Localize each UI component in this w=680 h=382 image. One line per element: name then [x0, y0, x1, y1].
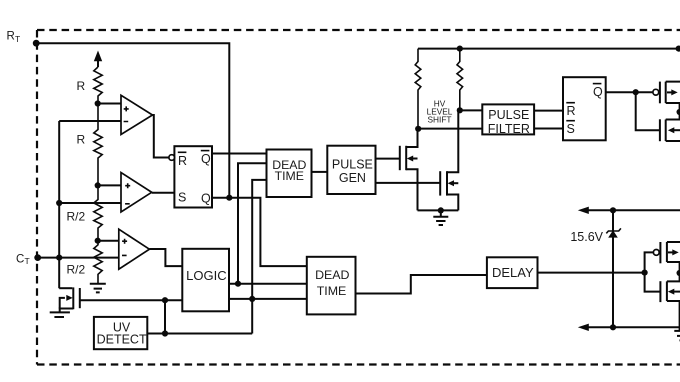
- svg-text:T: T: [25, 256, 30, 266]
- svg-text:T: T: [15, 34, 20, 44]
- node divider tap 3: [95, 238, 101, 244]
- arrow to VCC above resistor chain: [97, 60, 99, 67]
- zener diode D1: [608, 230, 618, 237]
- wire clamp rail (bottom): [588, 326, 680, 328]
- svg-text:R: R: [567, 104, 576, 118]
- block LOGIC: [182, 249, 229, 311]
- wire gate to UV line: [164, 300, 166, 333]
- wire HO n-driver gate: [636, 92, 659, 130]
- transistor Q7 (LO p-driver): [659, 242, 661, 263]
- node divider tap 1: [95, 100, 101, 106]
- node zener top: [610, 207, 616, 213]
- wire Q3 drain to PF S: [418, 128, 482, 130]
- node divider tap 2: [95, 182, 101, 188]
- ground under level shift: [433, 210, 448, 225]
- pin RT dot: [33, 40, 40, 47]
- wire Q4 drain to PF R: [460, 109, 483, 111]
- svg-text:DELAY: DELAY: [492, 265, 534, 280]
- wire VCC rail (right section): [418, 48, 679, 50]
- svg-text:LOGIC: LOGIC: [186, 268, 226, 283]
- svg-text:S: S: [178, 191, 186, 205]
- wire LOGIC out1 to DT2: [229, 283, 307, 285]
- wire U1 Qbar to DT1: [212, 153, 267, 155]
- svg-text:FILTER: FILTER: [488, 122, 530, 136]
- resistor R5 (level shift load): [415, 49, 421, 129]
- wire comp2 minus input: [59, 202, 121, 204]
- svg-text:GEN: GEN: [339, 171, 366, 185]
- block PULSE FILTER: [482, 104, 534, 134]
- transistor Q1 (CT discharge): [59, 287, 72, 289]
- op-amp comparator C3: [119, 229, 150, 269]
- svg-text:PULSE: PULSE: [488, 108, 529, 122]
- svg-text:R: R: [77, 79, 86, 93]
- node UV junction: [162, 330, 168, 336]
- transistor Q4 (level shift): [439, 171, 441, 195]
- wire LOGIC out2 to DT2: [229, 298, 307, 300]
- U1 R input bubble: [169, 155, 175, 161]
- wire HO output node: [679, 103, 680, 120]
- transistor Q8 (LO n-driver): [659, 281, 661, 302]
- wire logic out2 to DT1: [252, 180, 266, 334]
- svg-text:DETECT: DETECT: [97, 333, 147, 347]
- svg-text:R/2: R/2: [67, 263, 86, 277]
- svg-text:R: R: [178, 154, 187, 168]
- ground at LO driver: [674, 331, 680, 341]
- wire LO p-driver gate: [645, 252, 654, 272]
- node comp2 minus junction: [56, 200, 62, 206]
- svg-text:Q: Q: [593, 85, 603, 99]
- wire LO n-driver to ground: [679, 301, 680, 330]
- wire level-shift source rail: [418, 209, 459, 211]
- node CT junction: [56, 255, 62, 261]
- wire VCC clamp rail (top): [588, 209, 680, 211]
- resistor R (second): [94, 104, 102, 186]
- node LO: [677, 270, 680, 276]
- ground under divider: [90, 284, 106, 293]
- node R6 top: [457, 46, 463, 52]
- wire zener branch: [612, 210, 614, 327]
- node zener bottom: [610, 324, 616, 330]
- wire comp3 plus input: [98, 240, 119, 242]
- wire PG out1 to Q3 gate: [376, 158, 400, 160]
- resistor R/2 (fourth): [94, 241, 102, 284]
- node gate junction: [162, 297, 168, 303]
- wire CT discharge gate line: [80, 299, 183, 301]
- wire comp1 output to FF1 R: [153, 115, 169, 158]
- svg-text:R: R: [77, 133, 86, 147]
- wire comp3 output to LOGIC: [149, 249, 182, 266]
- op-amp comparator C1: [121, 95, 153, 134]
- wire inverting bus vertical: [58, 121, 60, 288]
- node LO gate junction: [642, 270, 648, 276]
- ground under Q1: [50, 311, 70, 313]
- wire PF to U2 Rbar: [534, 110, 563, 112]
- node out1 junction: [235, 281, 241, 287]
- wire U1 Q to DT2: [212, 198, 307, 266]
- wire DT1 to PULSE GEN: [312, 171, 328, 173]
- wire comp1 plus input: [98, 103, 121, 105]
- wire DELAY to LO drivers: [538, 272, 645, 274]
- transistor Q3 (level shift): [399, 146, 401, 170]
- wire UV DETECT output: [147, 333, 252, 335]
- node HO gate junction: [633, 89, 639, 95]
- block PULSE GEN: [327, 146, 375, 194]
- wire CT to comp3 minus: [38, 257, 119, 259]
- wire comp2 plus input: [98, 184, 121, 186]
- wire LO output node: [679, 262, 680, 281]
- wire U2 Qbar to HO drivers: [606, 91, 653, 93]
- node Q3 drain: [415, 126, 421, 132]
- flip-flop U2 (RS latch): [563, 77, 606, 140]
- wire comp2 output to FF1 S: [152, 192, 175, 194]
- resistor R/2 (third): [94, 185, 102, 240]
- svg-text:TIME: TIME: [317, 284, 347, 298]
- svg-text:DEAD: DEAD: [315, 268, 349, 282]
- inverter bubble HO p-driver: [653, 89, 659, 95]
- wire DT2 to DELAY: [356, 275, 487, 294]
- svg-text:R: R: [7, 31, 15, 43]
- svg-text:Q: Q: [201, 152, 211, 166]
- resistor R6 (level shift load): [457, 49, 463, 111]
- svg-text:PULSE: PULSE: [332, 158, 373, 172]
- wire comp1 minus input: [59, 120, 121, 122]
- resistor R (top): [94, 67, 102, 104]
- svg-text:TIME: TIME: [275, 169, 304, 183]
- node HO: [677, 109, 680, 115]
- svg-text:R/2: R/2: [67, 210, 86, 224]
- node Q4 drain: [457, 107, 463, 113]
- inverter bubble LO p-driver: [653, 250, 659, 256]
- svg-text:SHIFT: SHIFT: [428, 115, 452, 125]
- wire PG out2 to Q4 gate: [376, 182, 440, 184]
- svg-text:Q: Q: [201, 192, 211, 206]
- transistor Q5 (HO p-driver): [659, 82, 661, 104]
- block DT2 DEAD TIME: [307, 257, 356, 315]
- flip-flop U1 (RS latch): [174, 146, 212, 207]
- wire RT rail to Q line: [36, 43, 229, 198]
- block DT1 DEAD TIME: [267, 150, 312, 198]
- block DELAY: [487, 257, 538, 288]
- svg-text:15.6V: 15.6V: [570, 230, 603, 244]
- svg-text:S: S: [567, 122, 575, 136]
- node source rail junction: [438, 207, 444, 213]
- op-amp comparator C2: [121, 173, 152, 213]
- block UV DETECT: [94, 317, 147, 349]
- wire PF to U2 Sbar: [534, 128, 563, 130]
- pin CT dot: [34, 254, 41, 261]
- node Q rail junction: [226, 195, 232, 201]
- wire LO n-driver gate: [645, 273, 660, 292]
- node rail end: [676, 46, 680, 52]
- svg-text:C: C: [16, 254, 24, 266]
- wire logic out1 to DT1: [238, 163, 267, 283]
- transistor Q6 (HO n-driver): [659, 119, 661, 141]
- node out2 junction: [249, 296, 255, 302]
